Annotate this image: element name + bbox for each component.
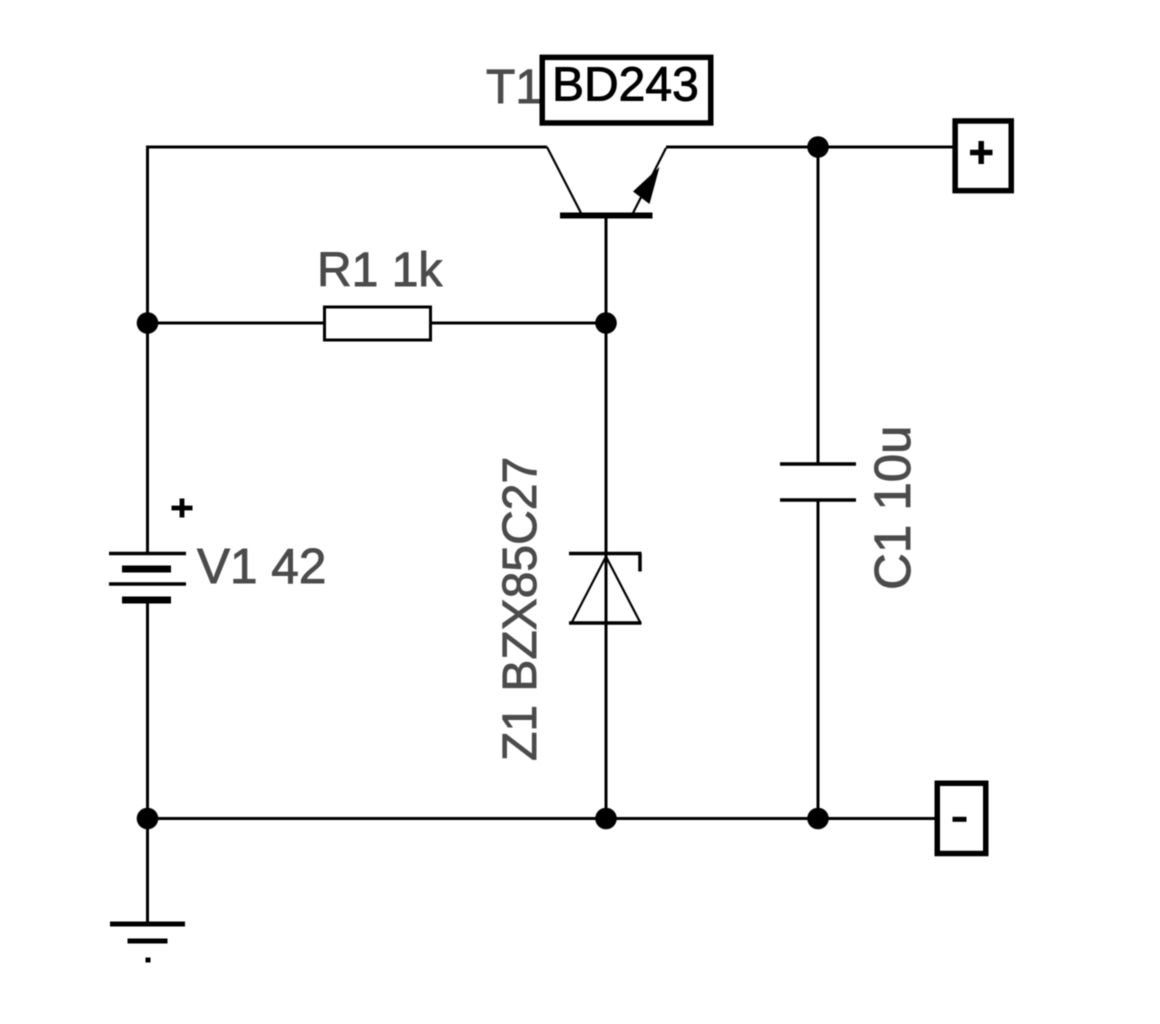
wire bottom rail	[148, 817, 935, 820]
battery V1 plate long lower	[109, 582, 186, 586]
wire zener top lead	[605, 323, 608, 819]
wire R1 left lead	[148, 322, 324, 325]
wire capacitor top lead	[817, 147, 820, 464]
zener Z1 anode base line	[569, 621, 642, 625]
svg-text:T1: T1	[486, 61, 542, 114]
wire base stub	[605, 218, 608, 323]
wire ground stem	[146, 819, 149, 925]
battery V1 plate long top	[109, 552, 186, 556]
battery V1 plate thick upper	[122, 566, 171, 573]
wire left rail upper	[146, 146, 149, 554]
transistor T1 emitter diagonal	[633, 148, 666, 213]
ground bar 1	[110, 922, 185, 927]
wire R1 right lead	[431, 322, 606, 325]
node R1 left junction	[137, 312, 159, 334]
node capacitor top junction	[807, 136, 829, 158]
resistor R1	[325, 307, 431, 340]
transistor T1 collector diagonal	[547, 147, 581, 213]
wire left rail lower	[146, 600, 149, 819]
battery V1 plus sign	[172, 499, 193, 518]
svg-text:V1 42: V1 42	[197, 539, 326, 594]
zener Z1 cathode hook	[638, 554, 642, 572]
part box BD243	[542, 57, 711, 123]
transistor T1 base bar	[560, 213, 653, 219]
zener Z1 cathode bar	[569, 552, 642, 556]
battery V1 plate thick bottom	[122, 597, 171, 604]
node capacitor bottom junction	[807, 808, 829, 830]
node base junction	[595, 312, 617, 334]
svg-text:C1 10u: C1 10u	[864, 426, 921, 590]
svg-text:R1 1k: R1 1k	[317, 244, 443, 297]
ground bar 2	[128, 939, 168, 944]
zener Z1 triangle right side	[607, 558, 641, 623]
wire top rail right segment	[666, 146, 953, 149]
zener Z1 triangle left side	[572, 558, 606, 623]
ground dot	[146, 958, 151, 963]
capacitor C1 bottom plate	[780, 498, 856, 502]
capacitor C1 top plate	[780, 462, 856, 466]
node bottom left junction	[137, 808, 159, 830]
wire capacitor bottom lead	[817, 500, 820, 819]
terminal plus box	[955, 121, 1011, 191]
wire top rail left segment	[146, 146, 547, 149]
wire zener bottom lead	[605, 622, 608, 819]
terminal minus sign	[953, 817, 967, 822]
node zener bottom junction	[595, 808, 617, 830]
svg-text:Z1 BZX85C27: Z1 BZX85C27	[494, 457, 547, 761]
terminal minus box	[937, 783, 986, 853]
svg-text:BD243: BD243	[552, 59, 699, 112]
transistor T1 emitter arrow	[633, 167, 660, 204]
terminal plus sign	[970, 141, 993, 164]
